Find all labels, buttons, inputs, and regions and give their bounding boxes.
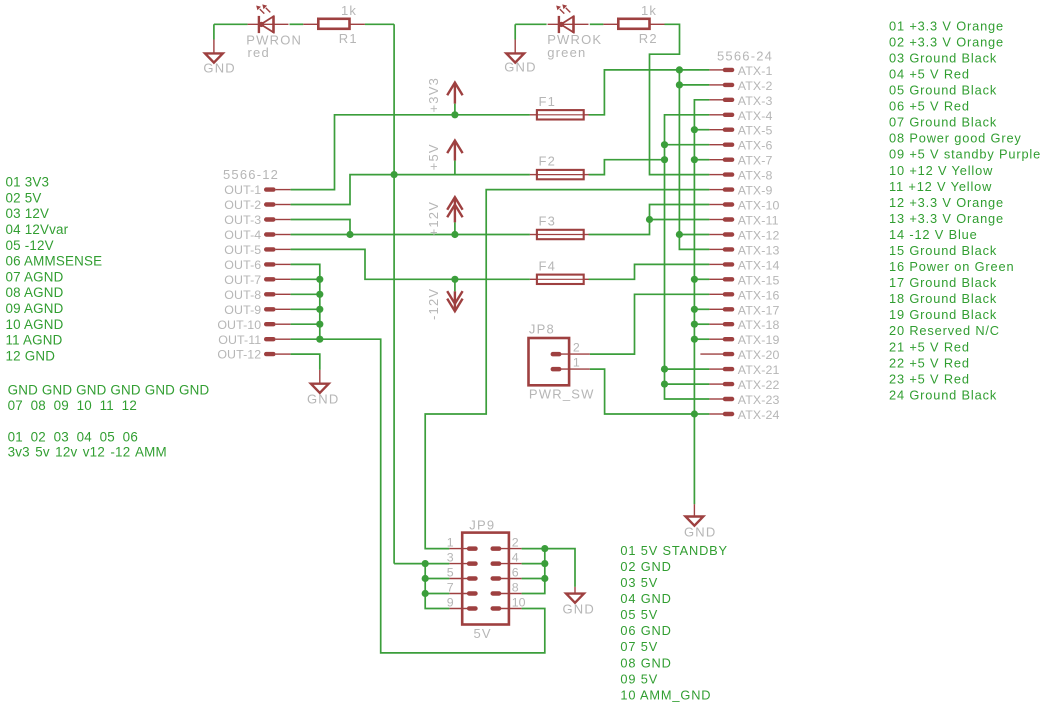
svg-text:F3: F3 <box>539 214 557 229</box>
pin ATX-20 <box>700 348 779 362</box>
connector JP9 5V header <box>449 533 521 625</box>
svg-text:09 +5 V standby Purple: 09 +5 V standby Purple <box>889 147 1041 162</box>
junction OUT-11 dot <box>316 336 323 343</box>
wire R2 to ATX-8 (PWROK net) <box>650 24 710 174</box>
svg-text:1k: 1k <box>641 3 657 18</box>
svg-text:+3V3: +3V3 <box>426 77 441 113</box>
wire GND: JP9 pin2 to ground <box>522 549 575 587</box>
svg-text:ATX-9: ATX-9 <box>738 184 773 198</box>
svg-text:ATX-14: ATX-14 <box>738 258 780 272</box>
supply symbol +5V <box>447 141 462 161</box>
svg-text:12 +3.3 V Orange: 12 +3.3 V Orange <box>889 195 1004 210</box>
svg-text:07 5V: 07 5V <box>620 639 658 654</box>
junction GND ATX-17 <box>691 306 698 313</box>
wire AGND: OUT-10 stub <box>291 323 320 325</box>
pin ATX-7 <box>709 154 772 168</box>
ground GND (PWRON) <box>203 40 236 76</box>
svg-text:17 Ground Black: 17 Ground Black <box>889 275 997 290</box>
wire 3V3 bus <box>679 70 709 250</box>
svg-text:GND GND GND GND GND GND: GND GND GND GND GND GND <box>8 383 210 398</box>
junction 5V ATX-22 <box>661 381 668 388</box>
wire PS_ON: JP8 pin2 to ATX-16 <box>590 294 710 354</box>
svg-text:ATX-18: ATX-18 <box>738 318 780 332</box>
pin ATX-2 <box>709 79 772 93</box>
svg-text:06 GND: 06 GND <box>620 623 671 638</box>
svg-text:ATX-17: ATX-17 <box>738 303 780 317</box>
junction GND ATX-7 <box>691 156 698 163</box>
svg-text:R1: R1 <box>339 31 358 46</box>
wire AGND: OUT-11 to JP9 pin10 <box>320 339 545 653</box>
pin OUT-8 <box>224 288 290 302</box>
wire 5V bus <box>665 115 710 399</box>
wire -12V: OUT-5 to F4 <box>291 249 530 279</box>
svg-text:09 5V: 09 5V <box>620 671 658 686</box>
pin OUT-11 <box>218 333 290 347</box>
pin ATX-21 <box>709 363 779 377</box>
junction GND ATX-18 <box>691 321 698 328</box>
junction +12V tap <box>451 231 458 238</box>
svg-text:01 02 03 04 05 06: 01 02 03 04 05 06 <box>8 429 138 444</box>
svg-text:11 +12 V Yellow: 11 +12 V Yellow <box>889 179 992 194</box>
wire AGND: OUT-6 to bus <box>291 264 320 339</box>
wire 3V3: F1 to ATX-1 <box>589 70 710 115</box>
svg-text:ATX-3: ATX-3 <box>738 94 773 108</box>
pin OUT-10 <box>217 318 290 332</box>
svg-text:ATX-1: ATX-1 <box>738 64 773 78</box>
wire GND: ATX-19 stub <box>694 338 709 340</box>
svg-text:18 Ground Black: 18 Ground Black <box>889 291 997 306</box>
node list OUT supply pins <box>8 429 167 459</box>
svg-text:OUT-2: OUT-2 <box>224 198 261 212</box>
svg-text:ATX-20: ATX-20 <box>738 348 780 362</box>
svg-text:10: 10 <box>512 595 526 609</box>
wire GND: ATX-24 stub <box>694 413 709 415</box>
svg-text:14 -12 V Blue: 14 -12 V Blue <box>889 227 978 242</box>
svg-text:OUT-7: OUT-7 <box>224 273 261 287</box>
wire +12V pin stem <box>454 222 456 234</box>
svg-text:5: 5 <box>447 565 454 579</box>
supply symbol +3V3 <box>447 83 462 104</box>
svg-text:6: 6 <box>512 565 519 579</box>
svg-text:ATX-15: ATX-15 <box>738 273 780 287</box>
svg-text:ATX-7: ATX-7 <box>738 154 773 168</box>
junction 5V JP9 pin3 <box>422 560 429 567</box>
svg-text:10 AMM_GND: 10 AMM_GND <box>620 687 711 702</box>
pin OUT-4 <box>224 228 290 242</box>
pin ATX-1 <box>709 64 772 78</box>
svg-text:OUT-4: OUT-4 <box>224 228 261 242</box>
svg-text:3v3 5v 12v v12 -12 AMM: 3v3 5v 12v v12 -12 AMM <box>8 445 167 460</box>
wire GND: OUT-12 to ground <box>291 354 320 370</box>
svg-text:ATX-19: ATX-19 <box>738 333 780 347</box>
wire GND symbol riser (PWRON) <box>213 24 215 39</box>
svg-text:red: red <box>248 45 270 60</box>
svg-text:ATX-23: ATX-23 <box>738 393 780 407</box>
svg-text:08 AGND: 08 AGND <box>6 285 64 300</box>
pin OUT-12 <box>217 348 290 362</box>
wire AGND: OUT-11 stub <box>291 338 320 340</box>
svg-text:05 -12V: 05 -12V <box>6 238 54 253</box>
svg-text:13 +3.3 V Orange: 13 +3.3 V Orange <box>889 211 1004 226</box>
connector JP8 PWR_SW <box>529 338 590 385</box>
svg-text:ATX-13: ATX-13 <box>738 243 780 257</box>
svg-text:9: 9 <box>447 595 454 609</box>
svg-text:GND: GND <box>563 602 596 617</box>
junction AGND OUT-9 dot <box>316 306 323 313</box>
pin ATX-10 <box>709 199 779 213</box>
junction GND ATX-24 <box>691 410 698 417</box>
fuse F1 <box>530 110 589 119</box>
svg-text:ATX-4: ATX-4 <box>738 109 773 123</box>
junction GND JP9 pin6 <box>541 575 548 582</box>
svg-text:ATX-21: ATX-21 <box>738 363 780 377</box>
svg-text:07 Ground Black: 07 Ground Black <box>889 115 997 130</box>
wire GND: JP8 pin1 to bus <box>590 369 695 414</box>
svg-text:04 12Vvar: 04 12Vvar <box>6 222 69 237</box>
wire GND: ATX-7 stub <box>694 159 709 161</box>
node list 5566-12 pin table <box>6 175 103 364</box>
wire 5V: JP9 pin5 stub <box>425 578 449 580</box>
ground GND (OUT-12) <box>307 370 340 406</box>
resistor R2 1k <box>603 19 664 29</box>
svg-text:12 GND: 12 GND <box>6 348 56 363</box>
wire GND bus <box>694 100 709 504</box>
pin ATX-9 <box>709 184 772 198</box>
pin ATX-13 <box>709 243 779 257</box>
svg-text:01 3V3: 01 3V3 <box>6 175 50 190</box>
svg-text:OUT-8: OUT-8 <box>224 288 261 302</box>
svg-text:ATX-22: ATX-22 <box>738 378 780 392</box>
LED PWRON (red) <box>248 4 289 33</box>
wire 12V: OUT-4 to F3 <box>291 234 530 236</box>
wire LED2 to R2 <box>590 23 604 25</box>
svg-text:JP9: JP9 <box>469 517 495 532</box>
svg-text:2: 2 <box>573 341 580 355</box>
wire PS net: GND to LED1 anode <box>214 23 248 25</box>
pin ATX-19 <box>709 333 779 347</box>
wire 5V: rail to JP9 pin3 <box>394 563 425 565</box>
svg-text:09 AGND: 09 AGND <box>6 301 64 316</box>
junction 5V JP9 pin7 <box>422 590 429 597</box>
junction 3V3 bus top (ATX-1) <box>676 66 683 73</box>
wire GND to LED2 <box>515 23 546 25</box>
wire AGND: OUT-8 stub <box>291 293 320 295</box>
pin ATX-12 <box>709 229 779 243</box>
resistor R1 1k <box>303 19 365 29</box>
svg-text:5566-24: 5566-24 <box>717 48 773 63</box>
svg-text:21 +5 V Red: 21 +5 V Red <box>889 339 970 354</box>
svg-text:OUT-9: OUT-9 <box>224 303 261 317</box>
svg-text:22 +5 V Red: 22 +5 V Red <box>889 355 970 370</box>
svg-text:03 12V: 03 12V <box>6 206 50 221</box>
svg-text:ATX-11: ATX-11 <box>738 214 779 228</box>
svg-text:OUT-10: OUT-10 <box>217 318 261 332</box>
svg-text:1: 1 <box>573 356 580 370</box>
junction AGND OUT-3/OUT-4 join <box>346 231 353 238</box>
junction 5V R1 tap <box>391 171 398 178</box>
pin ATX-4 <box>709 109 772 123</box>
svg-text:ATX-10: ATX-10 <box>738 199 780 213</box>
svg-text:01 +3.3 V Orange: 01 +3.3 V Orange <box>889 18 1004 33</box>
junction 3V3 ATX-12 <box>676 231 683 238</box>
pin ATX-18 <box>709 318 779 332</box>
svg-text:ATX-8: ATX-8 <box>738 169 773 183</box>
svg-text:ATX-2: ATX-2 <box>738 79 773 93</box>
junction 5V F2 feed <box>661 156 668 163</box>
svg-text:OUT-6: OUT-6 <box>224 258 261 272</box>
svg-text:10 +12 V Yellow: 10 +12 V Yellow <box>889 163 993 178</box>
node list ATX pin table <box>889 18 1041 402</box>
svg-text:7: 7 <box>447 580 454 594</box>
junction OUT-10 dot <box>316 321 323 328</box>
fuse F3 <box>530 230 589 239</box>
svg-text:F2: F2 <box>539 154 557 169</box>
svg-text:10 AGND: 10 AGND <box>6 317 64 332</box>
wire AGND: OUT-9 stub <box>291 308 320 310</box>
junction 3V3 ATX-2 <box>676 81 683 88</box>
svg-text:08 GND: 08 GND <box>620 655 671 670</box>
svg-text:07 08 09 10 11 12: 07 08 09 10 11 12 <box>8 398 137 413</box>
svg-text:GND: GND <box>307 391 340 406</box>
svg-text:24 Ground Black: 24 Ground Black <box>889 388 997 403</box>
pin ATX-11 <box>709 214 778 228</box>
ground GND (PWROK) <box>504 40 537 75</box>
pin ATX-6 <box>709 139 772 153</box>
wire 3V3: ATX-2 stub <box>679 84 709 86</box>
svg-text:ATX-24: ATX-24 <box>738 408 780 422</box>
junction AGND OUT-8 dot <box>316 291 323 298</box>
svg-text:19 Ground Black: 19 Ground Black <box>889 307 997 322</box>
svg-text:5566-12: 5566-12 <box>223 167 279 182</box>
svg-text:GND: GND <box>203 61 236 76</box>
svg-text:5V: 5V <box>474 626 492 641</box>
svg-text:8: 8 <box>512 580 519 594</box>
wire AGND: OUT-7 stub <box>291 278 320 280</box>
svg-text:06 +5 V Red: 06 +5 V Red <box>889 99 970 114</box>
supply symbol -12V <box>447 291 462 311</box>
svg-text:20 Reserved N/C: 20 Reserved N/C <box>889 323 1000 338</box>
svg-text:OUT-3: OUT-3 <box>224 213 261 227</box>
svg-text:05 5V: 05 5V <box>620 607 658 622</box>
svg-text:+5V: +5V <box>426 143 441 170</box>
wire 12V: ATX-11 stub <box>650 219 710 221</box>
svg-text:02 5V: 02 5V <box>6 190 42 205</box>
svg-text:23 +5 V Red: 23 +5 V Red <box>889 371 970 386</box>
wire GND: ATX-18 stub <box>694 323 709 325</box>
wire GND riser (PWROK) <box>514 24 516 39</box>
ground GND (JP9) <box>563 587 596 617</box>
wire +3V3 pin stem <box>454 104 456 115</box>
svg-text:ATX-16: ATX-16 <box>738 288 780 302</box>
pin OUT-6 <box>224 258 290 272</box>
svg-text:ATX-12: ATX-12 <box>738 229 780 243</box>
svg-text:07 AGND: 07 AGND <box>6 269 64 284</box>
wire 3V3: OUT-1 to F1 <box>291 115 530 190</box>
svg-text:JP8: JP8 <box>529 322 555 337</box>
pin ATX-17 <box>709 303 779 317</box>
fuse F4 <box>530 275 589 284</box>
junction 12V ATX-11 <box>646 216 653 223</box>
svg-text:4: 4 <box>512 550 519 564</box>
svg-text:F1: F1 <box>539 94 557 109</box>
wire 12V: OUT-3 join <box>291 220 350 235</box>
wire 5V: F2 to bus <box>589 160 665 175</box>
svg-text:green: green <box>547 45 586 60</box>
svg-text:08 Power good Grey: 08 Power good Grey <box>889 131 1022 146</box>
svg-text:03 5V: 03 5V <box>620 575 658 590</box>
wire 5V: JP9 pin7 stub <box>425 593 449 595</box>
svg-text:GND: GND <box>684 525 717 540</box>
junction 5V JP9 pin5 <box>422 575 429 582</box>
svg-text:OUT-12: OUT-12 <box>217 348 261 362</box>
svg-text:-12V: -12V <box>426 288 441 320</box>
wire 5VSB: ATX-9 to JP9 pin1 <box>425 190 709 549</box>
LED PWROK (green) <box>548 4 589 33</box>
junction GND JP9 pin4 <box>541 560 548 567</box>
svg-text:F4: F4 <box>539 258 557 273</box>
junction GND ATX-5 <box>691 126 698 133</box>
svg-text:11 AGND: 11 AGND <box>6 333 63 348</box>
svg-text:05 Ground Black: 05 Ground Black <box>889 83 997 98</box>
wire GND: ATX-15 stub <box>694 278 709 280</box>
junction AGND OUT-7 dot <box>316 276 323 283</box>
wire 5V: ATX-21 stub <box>665 368 710 370</box>
junction -12V tap <box>451 276 458 283</box>
svg-text:OUT-5: OUT-5 <box>224 243 261 257</box>
svg-text:04 GND: 04 GND <box>620 591 671 606</box>
junction GND ATX-19 <box>691 336 698 343</box>
wire GND: JP9 right bus <box>522 549 545 594</box>
wire GND: JP9 pin6 stub <box>522 578 545 580</box>
svg-text:01 5V STANDBY: 01 5V STANDBY <box>620 543 728 558</box>
svg-text:1: 1 <box>447 535 454 549</box>
junction GND JP9 pin2 <box>541 545 548 552</box>
wire R1 to corner <box>365 23 394 25</box>
svg-text:OUT-1: OUT-1 <box>224 183 261 197</box>
wire -12V: F4 to ATX-14 <box>589 264 710 279</box>
svg-text:ATX-6: ATX-6 <box>738 139 773 153</box>
svg-text:2: 2 <box>512 535 519 549</box>
wire LED1 to R1 <box>290 23 304 25</box>
junction 5V ATX-21 <box>661 366 668 373</box>
svg-text:ATX-5: ATX-5 <box>738 124 773 138</box>
ground GND (ATX) <box>684 504 717 539</box>
pin OUT-7 <box>224 273 290 287</box>
svg-text:06 AMMSENSE: 06 AMMSENSE <box>6 254 103 269</box>
pin OUT-9 <box>224 303 290 317</box>
pin ATX-16 <box>709 288 779 302</box>
svg-text:OUT-11: OUT-11 <box>218 333 261 347</box>
svg-text:GND: GND <box>504 60 537 75</box>
svg-text:3: 3 <box>447 550 454 564</box>
svg-text:03 Ground Black: 03 Ground Black <box>889 50 997 65</box>
wire GND: JP9 pin4 stub <box>522 563 545 565</box>
junction 5V ATX-6 <box>661 141 668 148</box>
wire R1 drop to +5V rail <box>393 24 395 563</box>
svg-text:1k: 1k <box>341 3 357 18</box>
svg-text:02 GND: 02 GND <box>620 559 671 574</box>
wire 5V: ATX-22 stub <box>665 383 710 385</box>
pin ATX-23 <box>709 393 779 407</box>
pin OUT-5 <box>224 243 290 257</box>
pin ATX-8 <box>709 169 772 183</box>
svg-text:02 +3.3 V Orange: 02 +3.3 V Orange <box>889 34 1004 49</box>
pin ATX-15 <box>709 273 779 287</box>
wire GND: ATX-5 stub <box>694 129 709 131</box>
wire -12V pin stem <box>454 279 456 291</box>
pin ATX-5 <box>709 124 772 138</box>
junction GND ATX-15 <box>691 276 698 283</box>
wire 5V: JP9 left bus <box>425 564 449 609</box>
svg-text:R2: R2 <box>639 31 658 46</box>
svg-text:04 +5 V Red: 04 +5 V Red <box>889 67 970 82</box>
wire +5V pin stem <box>454 161 456 175</box>
junction +3V3 tap <box>451 111 458 118</box>
svg-text:+12V: +12V <box>426 201 441 237</box>
wire 5V: JP9 pin3 stub <box>425 563 449 565</box>
wire 12V: F3 to ATX-10 <box>589 205 710 235</box>
wire 5V: OUT-2 to F2 <box>291 175 530 205</box>
svg-text:16 Power on Green: 16 Power on Green <box>889 259 1014 274</box>
fuse F2 <box>530 170 589 179</box>
svg-text:15 Ground Black: 15 Ground Black <box>889 243 997 258</box>
svg-text:PWR_SW: PWR_SW <box>529 386 595 401</box>
pin OUT-3 <box>224 213 290 227</box>
wire GND: ATX-17 stub <box>694 308 709 310</box>
pin ATX-3 <box>709 94 772 108</box>
pin OUT-1 <box>224 183 290 197</box>
node list JP9 pin table <box>620 543 728 703</box>
pin ATX-24 <box>709 408 779 422</box>
wire 5V: ATX-6 stub <box>665 144 710 146</box>
pin OUT-2 <box>224 198 290 212</box>
wire 3V3: ATX-12 stub <box>679 234 709 236</box>
pin ATX-22 <box>709 378 779 392</box>
supply symbol +12V <box>447 197 462 222</box>
node list OUT ground pins <box>8 383 210 413</box>
pin ATX-14 <box>709 258 779 272</box>
